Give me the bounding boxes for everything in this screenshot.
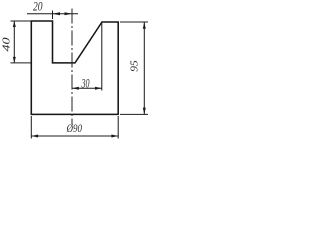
dim 40: bottom extension line — [11, 62, 32, 64]
svg-text:40: 40 — [2, 37, 13, 52]
arrowheads — [13, 12, 146, 137]
dim 30: right extension — [101, 23, 103, 91]
dim 90: right extension — [117, 116, 119, 139]
dim 40 bottom arrow (pointing down) — [13, 57, 16, 63]
thin lines: extensions and dimension lines — [11, 11, 149, 139]
dim 40: dimension line — [13, 21, 15, 63]
centerline (axis) — [71, 9, 73, 125]
dim 90 right arrow (pointing right) — [111, 135, 118, 138]
dim 20: extension of tab right edge up — [52, 11, 54, 20]
svg-text:30: 30 — [81, 75, 90, 90]
dim 20: dimension line — [27, 13, 78, 15]
dim 95: dimension line — [143, 22, 145, 114]
dim 40: top extension line — [11, 20, 32, 22]
svg-text:Ø90: Ø90 — [66, 123, 82, 135]
dim 20 right arrow (tip at centerline, pointing right) — [65, 12, 73, 15]
dim 95: top extension — [120, 21, 148, 23]
dim 90 left arrow (pointing left) — [31, 135, 38, 138]
dim 90: dimension line — [31, 135, 118, 137]
dim 40 top arrow (pointing up) — [13, 21, 16, 27]
svg-text:95: 95 — [130, 60, 141, 72]
dim 90: left extension — [30, 116, 32, 139]
dim 30: dimension line — [72, 87, 102, 89]
dim 95 top arrow (pointing up) — [143, 22, 146, 29]
dim 20 left arrow (tip at tab right edge, pointing left) — [53, 12, 61, 15]
outline of part — [31, 21, 118, 114]
dim 95 bottom arrow (pointing down) — [143, 108, 146, 115]
dim 95: bottom extension — [120, 113, 148, 115]
svg-text:20: 20 — [33, 0, 43, 14]
dim 30 left arrow (pointing left) — [72, 87, 79, 90]
dim 30 right arrow (pointing right) — [95, 87, 102, 90]
